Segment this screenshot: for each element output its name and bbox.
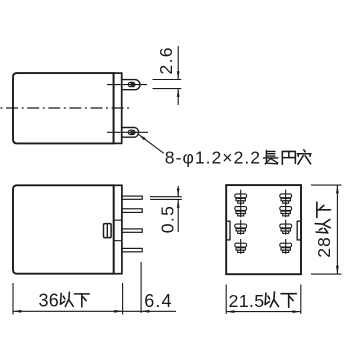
- dimension 2.6 arrow lines: [177, 46, 179, 105]
- shared dimension line: [13, 310, 176, 312]
- dimension 28 line with arrows: [336, 185, 338, 274]
- relay body (front view): [13, 185, 114, 273]
- pin A1: [235, 190, 247, 205]
- oblong hole of pin 1: [128, 82, 135, 86]
- pin 2 centerline: [107, 131, 148, 133]
- dimension 0.5 extension lines: [150, 197, 182, 200]
- dimension 28 extension lines: [311, 185, 342, 274]
- terminal pin 1 (upper, side view): [122, 80, 140, 90]
- pin B4: [280, 239, 292, 254]
- pin A3: [235, 220, 247, 235]
- svg-text:28: 28: [314, 236, 334, 258]
- pin 2 (front view): [122, 209, 142, 213]
- relay body (side view): [13, 73, 114, 143]
- relay base outline (bottom view): [226, 185, 301, 274]
- pin 3 (front view): [122, 229, 142, 232]
- dimension 36 extension lines: [13, 283, 123, 315]
- leader line to pin hole note: [138, 134, 164, 153]
- pin A4: [235, 239, 247, 254]
- oblong hole of pin 2: [128, 130, 135, 134]
- pin B1: [280, 190, 292, 205]
- left notch: [226, 221, 230, 240]
- latch detail: [104, 224, 112, 238]
- mounting flange (side view): [114, 73, 122, 143]
- right notch: [297, 221, 301, 240]
- horizontal dash-dot centerline: [1, 107, 132, 109]
- pin 1 centerline: [107, 84, 147, 86]
- pin B3: [280, 220, 292, 235]
- flange division lines: [114, 220, 122, 241]
- svg-text:6.4: 6.4: [144, 291, 172, 311]
- svg-text:21.5: 21.5: [229, 291, 265, 311]
- svg-text:8-φ1.2×2.2: 8-φ1.2×2.2: [165, 148, 261, 168]
- svg-text:2.6: 2.6: [156, 46, 176, 74]
- pin B2: [280, 202, 292, 217]
- dimension text 28以下 rotated: [314, 202, 334, 258]
- terminal pin 2 (lower, side view): [122, 128, 139, 138]
- svg-text:0.5: 0.5: [158, 205, 178, 233]
- mounting flange (front view): [114, 185, 122, 273]
- pin 1 (front view): [122, 196, 142, 199]
- dimension 0.5 arrow lines: [177, 186, 179, 232]
- dimension 2.6 extension lines: [153, 80, 182, 89]
- svg-text:36: 36: [39, 290, 60, 310]
- pin 4 (front view): [122, 248, 142, 251]
- dimension 6.4 extension line at pin tips: [140, 262, 142, 313]
- dimension 21.5 extension lines: [226, 285, 301, 315]
- pin A2: [235, 202, 247, 217]
- dimension 21.5 line with arrows: [226, 311, 301, 313]
